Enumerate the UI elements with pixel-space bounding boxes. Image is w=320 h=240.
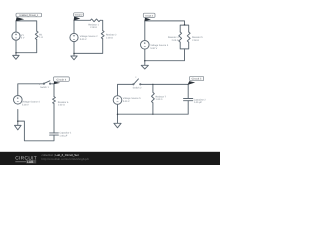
svg-text:Circuit 2: Circuit 2 (75, 14, 83, 17)
svg-text:Circuit 4: Circuit 4 (56, 78, 66, 81)
svg-text:1.00 Ω: 1.00 Ω (58, 103, 65, 106)
svg-text:5.00 V: 5.00 V (22, 103, 29, 106)
svg-text:Resistor 4: Resistor 4 (168, 36, 179, 39)
svg-text:5 V: 5 V (21, 37, 25, 40)
svg-text:5.00 V: 5.00 V (80, 38, 87, 41)
svg-text:5.00 V: 5.00 V (150, 47, 157, 50)
svg-text:Circuit 3: Circuit 3 (145, 14, 153, 17)
svg-text:2.00 Ω: 2.00 Ω (172, 39, 179, 42)
svg-text:Circuit 5: Circuit 5 (192, 78, 202, 81)
svg-text:Voltage Source 5: Voltage Source 5 (123, 97, 141, 100)
svg-text:http://circuitlab.com/c/om6zsh: http://circuitlab.com/c/om6zshng4qvb (42, 157, 90, 161)
svg-text:Resistor 5: Resistor 5 (192, 36, 203, 39)
svg-text:Untitled_Circuit_1: Untitled_Circuit_1 (19, 14, 39, 17)
svg-text:2.00 Ω: 2.00 Ω (106, 36, 113, 39)
svg-text:1 Ω: 1 Ω (39, 36, 43, 39)
svg-text:Switch 2: Switch 2 (133, 86, 143, 89)
svg-text:1.00 µF: 1.00 µF (194, 101, 203, 104)
svg-text:1.00 µF: 1.00 µF (59, 134, 68, 137)
svg-text:Resistor 1: Resistor 1 (88, 23, 99, 26)
svg-text:Voltage Source 2: Voltage Source 2 (80, 35, 98, 38)
svg-text:2.00 Ω: 2.00 Ω (90, 26, 97, 29)
svg-text:Capacitor 2: Capacitor 2 (194, 99, 207, 102)
svg-text:LAB: LAB (27, 160, 34, 164)
svg-text:Voltage Source 4: Voltage Source 4 (22, 101, 40, 104)
svg-text:5.00 V: 5.00 V (123, 100, 130, 103)
svg-text:Capacitor 1: Capacitor 1 (59, 132, 72, 135)
svg-text:1.00 Ω: 1.00 Ω (156, 98, 163, 101)
svg-text:2.00 Ω: 2.00 Ω (192, 39, 199, 42)
svg-text:Voltage Source 3: Voltage Source 3 (150, 44, 168, 47)
svg-text:Resistor 7: Resistor 7 (156, 96, 167, 99)
svg-text:Resistor 2: Resistor 2 (106, 34, 117, 37)
svg-text:Switch 1: Switch 1 (40, 86, 50, 89)
